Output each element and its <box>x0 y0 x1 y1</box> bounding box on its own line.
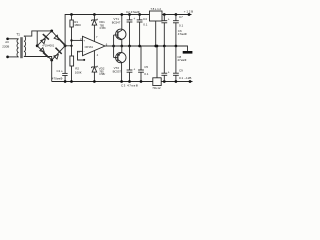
svg-text:С4: С4 <box>143 17 147 21</box>
svg-text:100К: 100К <box>75 71 82 75</box>
diode VD bottom-right <box>54 48 62 59</box>
node bridge top <box>50 30 53 33</box>
svg-text:0.1: 0.1 <box>179 23 184 27</box>
node C7 bottom <box>175 45 178 48</box>
node bridge left <box>36 44 39 47</box>
svg-text:470мкФ: 470мкФ <box>52 76 63 80</box>
node output <box>112 45 115 48</box>
capacitor C1 <box>62 72 67 74</box>
node pin2 stub <box>83 59 85 61</box>
capacitor C6 <box>163 15 165 21</box>
node 79L12 gnd top <box>156 45 159 48</box>
svg-text:−12В: −12В <box>184 76 191 80</box>
wire bridge right to divider <box>65 45 71 47</box>
capacitor C2 <box>129 15 131 20</box>
bridge edge bottom-right <box>52 46 65 60</box>
node divider mid <box>70 45 72 47</box>
resistor R1 <box>71 15 73 21</box>
capacitor C3 <box>129 46 131 70</box>
svg-text:0.1: 0.1 <box>144 72 149 76</box>
node C6 top <box>163 13 166 16</box>
node C5 bottom <box>140 80 143 83</box>
node R2 bottom <box>70 80 73 83</box>
node emitters <box>120 45 123 48</box>
svg-text:+: + <box>61 69 63 73</box>
wire mid rail <box>114 46 188 51</box>
capacitor C9 <box>175 46 177 73</box>
node 78L12 gnd <box>154 45 157 48</box>
svg-text:0.5Вт: 0.5Вт <box>100 27 107 30</box>
diode VD bottom-left <box>40 48 49 58</box>
node C9 bottom <box>175 80 178 83</box>
input terminal bottom <box>6 56 9 59</box>
svg-text:Т1: Т1 <box>16 32 20 36</box>
wire secondary top to bridge <box>24 31 52 36</box>
svg-text:−: − <box>83 50 85 54</box>
ground bar <box>183 51 193 54</box>
transistor VT2 <box>116 52 126 62</box>
zener VD2 <box>93 50 95 67</box>
svg-text:0.1: 0.1 <box>179 76 184 80</box>
zener VD1 <box>93 15 95 20</box>
capacitor C5 <box>140 46 142 70</box>
node C2 top <box>128 13 131 16</box>
node bridge right <box>64 44 67 47</box>
resistor R2 <box>71 46 73 56</box>
node VT1 collector on rail <box>120 13 123 16</box>
node C2 bottom <box>128 45 131 48</box>
svg-text:79L12: 79L12 <box>152 86 161 90</box>
diode VD top-left <box>41 34 49 44</box>
node R1 bottom / op-amp input <box>70 39 72 41</box>
wire bridge right column (top rail corner to C1) <box>65 15 191 74</box>
capacitor C8 <box>163 46 165 73</box>
wire secondary bottom to bridge <box>24 57 52 61</box>
node C1 bottom <box>64 80 67 83</box>
node -12V terminal <box>189 80 192 83</box>
node C3 bottom <box>128 80 131 83</box>
svg-text:ВС557: ВС557 <box>113 70 122 74</box>
svg-text:47мкФ: 47мкФ <box>178 32 188 36</box>
bridge edge top-right <box>52 31 65 46</box>
capacitor C7 <box>175 13 178 16</box>
node VT2 collector bottom <box>120 80 123 83</box>
svg-text:+12В: +12В <box>184 9 193 13</box>
svg-text:ВС547: ВС547 <box>112 21 121 25</box>
wire to bridge left corner <box>36 31 38 46</box>
node C8 bottom <box>163 80 166 83</box>
transistor VT1 <box>116 29 126 39</box>
wire base split <box>113 35 115 58</box>
bridge edge top-left <box>37 31 52 46</box>
node bridge bottom <box>50 59 53 62</box>
wire primary bottom <box>8 56 19 58</box>
svg-text:47мкФ: 47мкФ <box>177 58 187 62</box>
svg-text:С2 47мкФ: С2 47мкФ <box>126 10 140 14</box>
wire bridge bottom to bottom rail <box>51 60 53 81</box>
svg-text:+: + <box>83 38 85 42</box>
svg-text:С3 47мкФ: С3 47мкФ <box>121 84 139 88</box>
transformer T1 secondary winding <box>24 36 26 56</box>
wire bottom rail <box>52 81 193 83</box>
transformer T1 primary winding <box>17 39 19 57</box>
diode VD top-right <box>54 35 65 45</box>
svg-text:0.1: 0.1 <box>143 22 148 26</box>
svg-text:220В: 220В <box>2 45 9 49</box>
svg-text:С5: С5 <box>144 65 148 69</box>
svg-text:0.5Вт: 0.5Вт <box>99 73 106 76</box>
node C6 bottom <box>163 45 166 48</box>
node C4 bottom <box>138 45 141 48</box>
node VD2 bottom <box>93 80 96 83</box>
input terminal top <box>6 37 9 40</box>
wire primary top <box>8 38 19 40</box>
node +12V terminal <box>188 13 191 16</box>
capacitor C4 <box>139 15 141 20</box>
bridge edge bottom-left <box>37 46 52 60</box>
wire to op-amp pin 3 <box>72 39 83 41</box>
svg-text:+: + <box>133 68 135 72</box>
svg-text:78L12: 78L12 <box>150 7 161 11</box>
regulator 78L12 <box>150 11 163 21</box>
svg-text:+: + <box>168 18 170 22</box>
node C4 top <box>138 13 141 16</box>
node R1 top on rail <box>70 13 73 16</box>
svg-text:С7: С7 <box>179 15 183 19</box>
regulator 79L12 <box>153 78 161 86</box>
op-amp U1 <box>83 36 106 55</box>
transformer T1 core <box>20 37 22 58</box>
wire op-amp output <box>105 45 114 47</box>
svg-text:180К: 180К <box>74 23 81 27</box>
svg-text:С9: С9 <box>179 69 183 73</box>
wire op-amp pin2 feedback <box>78 51 85 60</box>
svg-text:ОР161: ОР161 <box>85 45 94 49</box>
node VD1 top on rail <box>93 13 96 16</box>
svg-text:+: + <box>168 70 170 74</box>
svg-text:4*1N4001: 4*1N4001 <box>42 43 54 47</box>
svg-text:+: + <box>133 17 135 21</box>
